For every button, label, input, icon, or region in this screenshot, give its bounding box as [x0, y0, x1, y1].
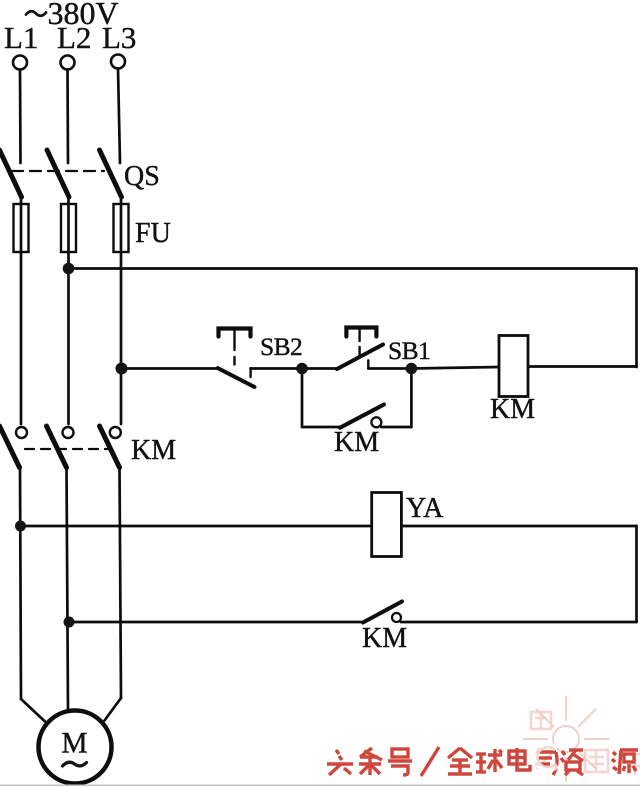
svg-text:KM: KM: [334, 427, 379, 458]
svg-text:FU: FU: [135, 218, 171, 249]
svg-text:L3: L3: [102, 20, 136, 55]
svg-text:M: M: [61, 728, 87, 760]
svg-text:L1: L1: [4, 20, 38, 55]
svg-text:KM: KM: [362, 623, 407, 654]
svg-text:KM: KM: [490, 394, 535, 425]
svg-text:L2: L2: [57, 20, 91, 55]
svg-text:KM: KM: [131, 435, 176, 466]
svg-text:YA: YA: [406, 493, 444, 524]
svg-text:SB1: SB1: [388, 336, 430, 365]
svg-text:SB2: SB2: [260, 332, 302, 361]
svg-text:QS: QS: [124, 161, 160, 192]
